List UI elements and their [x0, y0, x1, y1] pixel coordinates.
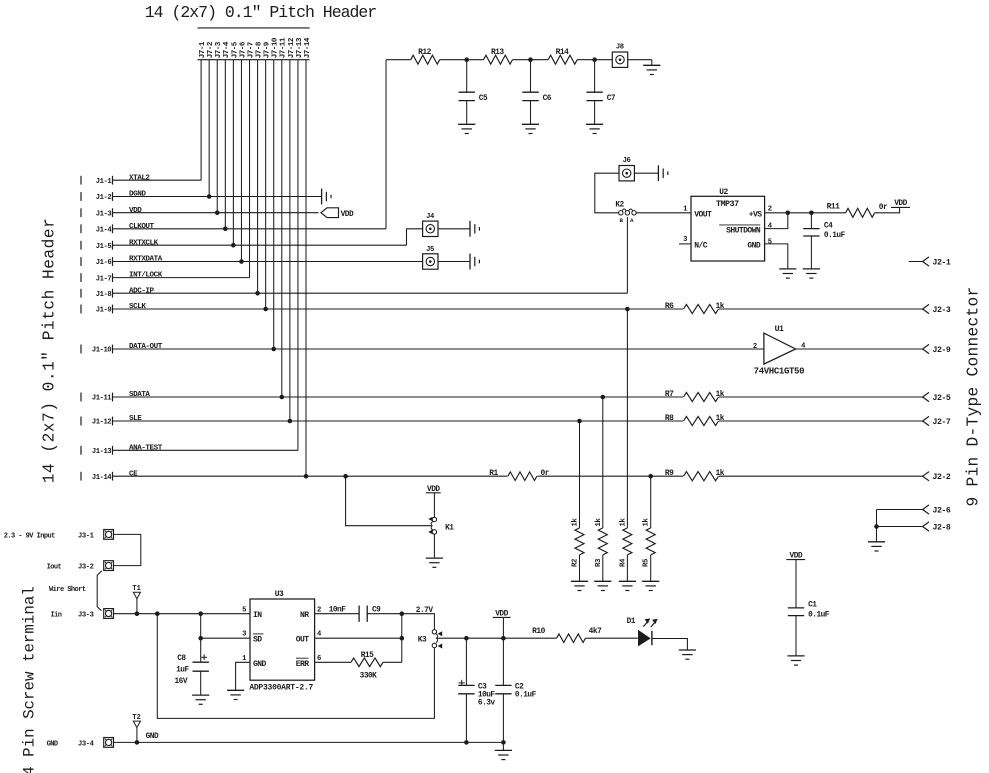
ground R4 — [619, 581, 636, 590]
header title text — [145, 3, 377, 22]
svg-text:J7-1: J7-1 — [199, 41, 207, 58]
svg-text:J7-3: J7-3 — [215, 41, 223, 58]
connector J1 pin J1-14 — [81, 472, 113, 482]
wire R4 to ground — [626, 555, 628, 581]
bottom left title — [21, 586, 39, 773]
power VDD at R11 — [891, 200, 910, 208]
svg-text:R7: R7 — [665, 390, 674, 399]
jumper K1 — [428, 517, 454, 535]
wire R10 to D1 — [586, 637, 638, 639]
wire K1 to ground — [433, 534, 435, 558]
wire K2 to U2 VOUT — [636, 212, 691, 214]
svg-text:J1-5: J1-5 — [96, 243, 112, 251]
wire DGND net — [113, 196, 322, 198]
svg-text:+VS: +VS — [749, 210, 763, 219]
svg-text:J8: J8 — [616, 44, 624, 52]
wire R3 column — [602, 397, 604, 528]
svg-text:J3-3: J3-3 — [78, 611, 94, 619]
wire J7-14 column — [305, 60, 307, 477]
right side title — [965, 287, 983, 507]
resistor R15 — [351, 652, 383, 680]
junction J7-5 to RXTXCLK — [231, 243, 236, 248]
wire J8 to ground — [628, 60, 652, 66]
svg-text:0.1uF: 0.1uF — [808, 611, 830, 619]
connector J1 pin J1-7 — [81, 273, 113, 283]
wire C9 to K3 — [367, 614, 434, 630]
svg-text:J7-12: J7-12 — [288, 37, 296, 58]
svg-text:1: 1 — [683, 206, 688, 214]
svg-text:C6: C6 — [543, 95, 552, 103]
svg-text:SD: SD — [253, 635, 262, 644]
svg-text:J7-14: J7-14 — [304, 37, 312, 58]
svg-text:R4: R4 — [619, 558, 627, 567]
svg-text:J2-7: J2-7 — [933, 418, 951, 427]
label J3-3 — [78, 611, 94, 619]
svg-text:J7-11: J7-11 — [280, 37, 288, 58]
wire J2-8 to ground — [876, 527, 878, 542]
junction C8 mid node — [198, 636, 203, 641]
ground C5 — [458, 124, 475, 133]
wire INT/LOCK net — [113, 277, 250, 279]
svg-text:J7-8: J7-8 — [255, 41, 263, 58]
wire CLKOUT riser — [385, 60, 387, 229]
wire OUT riser — [401, 614, 403, 663]
svg-text:J2-1: J2-1 — [933, 258, 951, 267]
power VDD at K1 — [426, 486, 441, 494]
svg-text:J1-1: J1-1 — [96, 178, 113, 186]
ground C1 — [787, 656, 804, 665]
ground U3 — [227, 690, 244, 699]
svg-text:R12: R12 — [418, 48, 431, 57]
junction C5 node — [464, 57, 469, 62]
wire VDD to R10 row — [502, 617, 504, 638]
label GND net — [146, 733, 159, 741]
wire K2 to ADC-IP — [626, 217, 628, 293]
svg-text:1k: 1k — [716, 302, 725, 311]
connector J1 pin J1-10 — [81, 345, 113, 355]
svg-text:R9: R9 — [665, 469, 674, 478]
connector J1 pin J1-13 — [81, 446, 113, 456]
svg-text:3: 3 — [683, 236, 687, 244]
svg-text:1k: 1k — [716, 414, 725, 423]
svg-text:1k: 1k — [619, 518, 627, 527]
svg-text:R3: R3 — [595, 558, 603, 567]
svg-text:RXTXCLK: RXTXCLK — [129, 239, 159, 247]
ground C8 — [192, 695, 209, 704]
svg-text:R2: R2 — [572, 559, 580, 567]
label ADC-IP — [129, 287, 155, 295]
label DGND — [129, 191, 146, 199]
testpoint T2 — [132, 714, 140, 742]
svg-text:VDD: VDD — [129, 207, 142, 215]
wire K2 to J6 — [595, 173, 619, 213]
capacitor C1 — [788, 560, 830, 656]
wire SLE net — [113, 420, 923, 422]
svg-text:A: A — [630, 217, 634, 224]
wire J5 to ground — [438, 261, 470, 263]
ground J4 — [470, 221, 479, 237]
svg-text:N/C: N/C — [694, 241, 708, 250]
svg-text:J3-1: J3-1 — [78, 532, 95, 540]
wire J7-12 column — [289, 60, 291, 421]
connector J2-9 — [923, 344, 951, 355]
wire R15 to OUT riser — [383, 661, 402, 663]
J7 pin labels — [199, 37, 312, 58]
wire J7-5 column — [232, 60, 234, 246]
junction J7-6 to RXTXDATA — [239, 259, 244, 264]
svg-text:B: B — [620, 217, 624, 224]
wire gnd stub — [502, 742, 504, 750]
svg-text:R1: R1 — [489, 469, 498, 478]
resistor R5 — [643, 518, 656, 567]
label 2.3-9V Input — [4, 532, 55, 540]
wire J4 to ground — [438, 228, 470, 230]
svg-text:J2-5: J2-5 — [933, 394, 951, 403]
connector J1 pin J1-5 — [81, 241, 113, 251]
svg-text:SCLK: SCLK — [129, 303, 146, 311]
connector J1 pin J1-2 — [81, 192, 113, 202]
junction C6 node — [528, 57, 533, 62]
wire SD net — [201, 637, 250, 639]
wire RXTXDATA net — [113, 261, 423, 263]
wire R2 to ground — [579, 555, 581, 581]
junction NR node — [400, 611, 405, 616]
connector J5 — [423, 246, 438, 269]
label DATA-OUT — [129, 343, 163, 351]
jumper K2 — [615, 201, 636, 224]
svg-text:Wire Short: Wire Short — [49, 586, 86, 594]
svg-text:C8: C8 — [177, 655, 186, 663]
wire R5 to ground — [650, 555, 652, 581]
wire U2 gnd pin — [765, 244, 788, 269]
ground C6 — [522, 124, 539, 133]
wire J7-8 column — [257, 60, 259, 294]
wire RXTXCLK to J4 — [407, 229, 423, 245]
ground J8 — [643, 65, 660, 74]
svg-text:J7-7: J7-7 — [247, 41, 255, 58]
junction J2-8 node — [874, 524, 879, 529]
svg-text:J1-10: J1-10 — [92, 347, 111, 355]
label 2.7V — [416, 607, 434, 615]
svg-text:J3-2: J3-2 — [78, 564, 94, 572]
label J3-2 — [78, 564, 94, 572]
label CE — [129, 470, 138, 478]
connector J1 pin J1-1 — [81, 176, 113, 186]
capacitor C2 — [495, 638, 536, 742]
svg-text:J3-4: J3-4 — [78, 740, 95, 748]
svg-text:R13: R13 — [491, 48, 504, 57]
svg-text:XTAL2: XTAL2 — [129, 174, 150, 182]
svg-text:2.3 - 9V Input: 2.3 - 9V Input — [4, 532, 55, 540]
capacitor C3 — [458, 638, 495, 742]
connector J1 pin J1-8 — [81, 289, 113, 299]
svg-text:1k: 1k — [716, 469, 725, 478]
wire U1 output — [796, 348, 923, 350]
wire J3-1 to J3-2 — [114, 534, 141, 565]
svg-text:ADC-IP: ADC-IP — [129, 287, 155, 295]
power VDD at C1 — [786, 553, 805, 561]
svg-text:J7-13: J7-13 — [296, 37, 304, 58]
ground R5 — [642, 581, 659, 590]
left side title — [41, 218, 59, 484]
op-amp U1 74VHC1GT50 — [753, 325, 806, 377]
label SDATA — [129, 391, 150, 399]
label RXTXDATA — [129, 256, 163, 264]
resistor R2 — [572, 518, 585, 567]
connector J2-8 — [877, 522, 951, 533]
ground C7 — [586, 124, 603, 133]
svg-text:U1: U1 — [775, 325, 784, 334]
junction R3 node — [601, 395, 606, 400]
wire J7-7 column — [249, 60, 251, 278]
svg-text:SLE: SLE — [129, 415, 142, 423]
label SCLK — [129, 303, 146, 311]
label CLKOUT — [129, 223, 155, 231]
wire U2 pin3 N/C stub — [679, 243, 691, 245]
svg-text:R5: R5 — [643, 558, 651, 567]
connector J2-7 — [923, 416, 951, 427]
svg-text:J1-4: J1-4 — [96, 227, 113, 235]
svg-text:K2: K2 — [615, 201, 624, 209]
svg-text:J7-6: J7-6 — [239, 41, 247, 58]
junction CE to K1 — [343, 474, 348, 479]
wire top chain seg1 — [386, 59, 411, 61]
label ANA-TEST — [129, 444, 163, 452]
label Iin — [51, 611, 62, 619]
svg-text:5: 5 — [768, 238, 772, 246]
ground J6 — [658, 165, 667, 181]
svg-text:Iout: Iout — [47, 564, 62, 572]
svg-text:ANA-TEST: ANA-TEST — [129, 444, 163, 452]
svg-text:R6: R6 — [665, 302, 674, 311]
ground J2 shield — [868, 542, 885, 551]
ground R3 — [594, 581, 611, 590]
wire J7-9 column — [265, 60, 267, 309]
svg-text:CE: CE — [129, 470, 138, 478]
resistor R6 — [665, 302, 725, 314]
connector J6 — [619, 157, 634, 181]
svg-text:RXTXDATA: RXTXDATA — [129, 256, 163, 264]
svg-text:J2-9: J2-9 — [933, 346, 951, 355]
wire ANA-TEST net — [113, 449, 298, 451]
svg-text:10uF: 10uF — [478, 692, 496, 700]
svg-text:10nF: 10nF — [329, 607, 347, 615]
wire Iin net — [114, 613, 251, 615]
svg-text:C1: C1 — [808, 602, 817, 610]
label VDD — [129, 207, 142, 215]
wire U3 OUT — [315, 637, 402, 639]
svg-text:R14: R14 — [556, 48, 569, 57]
svg-text:VDD: VDD — [341, 211, 354, 219]
wire VDD to K1 — [433, 493, 435, 518]
connector J2-5 — [923, 392, 951, 403]
svg-text:J1-8: J1-8 — [96, 291, 112, 299]
svg-text:J1-9: J1-9 — [96, 307, 112, 315]
ground C4 — [803, 269, 820, 278]
wire SDATA net — [113, 396, 923, 398]
svg-text:Iin: Iin — [51, 611, 62, 619]
svg-text:C5: C5 — [479, 95, 488, 103]
wire XTAL2 net — [113, 179, 201, 181]
junction J7-12 to SLE — [288, 419, 293, 424]
wire CLKOUT net — [113, 228, 386, 230]
svg-text:0.1uF: 0.1uF — [824, 232, 846, 240]
svg-text:VOUT: VOUT — [694, 210, 712, 219]
connector J2-3 — [923, 304, 951, 315]
svg-text:J6: J6 — [623, 157, 631, 165]
svg-text:U2: U2 — [719, 188, 728, 197]
junction C3 node — [464, 636, 469, 641]
resistor R10 — [532, 627, 602, 643]
ground GND net — [495, 750, 512, 759]
svg-text:IN: IN — [253, 611, 262, 620]
svg-text:SDATA: SDATA — [129, 391, 150, 399]
svg-text:4 Pin Screw terminal: 4 Pin Screw terminal — [21, 586, 39, 773]
svg-text:9 Pin D-Type Connector: 9 Pin D-Type Connector — [965, 287, 983, 507]
wire top chain seg4 — [577, 59, 612, 61]
svg-text:C7: C7 — [607, 95, 616, 103]
ground DGND — [322, 189, 331, 205]
svg-text:DGND: DGND — [129, 191, 146, 199]
wire R4 column — [626, 309, 628, 528]
wire K3 bottom bypass — [157, 614, 434, 719]
wire J3-2 to J3-3 short — [97, 571, 102, 611]
svg-text:DATA-OUT: DATA-OUT — [129, 343, 163, 351]
wire R2 column — [579, 421, 581, 528]
wire J7-11 column — [281, 60, 283, 397]
junction J7-9 to SCLK — [263, 307, 268, 312]
junction OUT node — [400, 636, 405, 641]
diode D1 LED — [627, 618, 658, 646]
terminal J3-4 — [104, 738, 114, 748]
power VDD tag — [321, 208, 354, 219]
svg-text:1k: 1k — [595, 518, 603, 527]
junction C4 node — [809, 211, 814, 216]
svg-text:U3: U3 — [275, 590, 284, 599]
label Iout — [47, 564, 62, 572]
junction shutdown node — [786, 211, 791, 216]
svg-text:1uF: 1uF — [176, 667, 189, 675]
resistor R3 — [595, 518, 608, 567]
svg-text:INT/LOCK: INT/LOCK — [129, 272, 163, 280]
junction Iin bypass node — [155, 611, 160, 616]
ground R2 — [571, 581, 588, 590]
junction T1 node — [135, 611, 140, 616]
svg-text:J4: J4 — [426, 213, 435, 221]
resistor R13 — [484, 48, 513, 64]
svg-text:K3: K3 — [418, 637, 427, 645]
svg-text:14 (2x7) 0.1" Pitch Header: 14 (2x7) 0.1" Pitch Header — [145, 3, 377, 22]
svg-text:5: 5 — [242, 607, 246, 615]
wire U3 gnd pin — [236, 662, 250, 690]
wire GND net — [114, 741, 504, 743]
svg-text:J1-3: J1-3 — [96, 210, 112, 218]
capacitor C5 — [459, 60, 488, 125]
wire R5 column — [650, 476, 652, 528]
svg-text:NR: NR — [300, 611, 309, 620]
svg-text:R8: R8 — [665, 414, 674, 423]
resistor R14 — [548, 48, 577, 64]
op-amp U3 ADP3300ART-2.7 — [242, 590, 322, 693]
wire top chain seg3 — [513, 59, 549, 61]
resistor R8 — [665, 414, 725, 426]
svg-text:GND: GND — [253, 660, 267, 669]
testpoint T1 — [132, 585, 140, 614]
svg-text:0r: 0r — [541, 469, 550, 478]
svg-text:SHUTDOWN: SHUTDOWN — [726, 226, 761, 235]
wire U3 ERR — [315, 661, 351, 663]
junction J7-11 to SDATA — [280, 395, 285, 400]
wire J7-13 column — [297, 60, 299, 451]
svg-text:R15: R15 — [361, 652, 374, 660]
terminal J3-1 — [104, 530, 114, 540]
wire SCLK net — [113, 308, 923, 310]
connector J8 — [612, 44, 627, 68]
svg-text:330K: 330K — [360, 672, 378, 680]
wire D1 to ground — [652, 639, 688, 651]
svg-text:4k7: 4k7 — [589, 627, 602, 636]
svg-text:0.1uF: 0.1uF — [515, 692, 537, 700]
jumper K3 — [418, 630, 442, 649]
label RXTXCLK — [129, 239, 159, 247]
svg-text:1k: 1k — [716, 390, 725, 399]
label SLE — [129, 415, 142, 423]
svg-text:GND: GND — [146, 733, 159, 741]
resistor R7 — [665, 390, 725, 402]
svg-text:74VHC1GT50: 74VHC1GT50 — [754, 367, 805, 377]
svg-text:K1: K1 — [445, 524, 454, 532]
svg-text:CLKOUT: CLKOUT — [129, 223, 155, 231]
svg-text:J7-4: J7-4 — [223, 41, 231, 58]
svg-text:3: 3 — [242, 631, 246, 639]
ground D1 — [679, 650, 696, 659]
svg-text:D1: D1 — [627, 618, 636, 626]
connector J1 pin J1-6 — [81, 257, 113, 267]
label Wire Short — [49, 586, 86, 594]
resistor R11 — [827, 203, 888, 218]
svg-text:J1-14: J1-14 — [92, 474, 112, 482]
capacitor C7 — [586, 60, 615, 125]
wire J7-4 column — [224, 60, 226, 229]
connector J4 — [423, 213, 438, 237]
svg-text:ADP3300ART-2.7: ADP3300ART-2.7 — [249, 684, 313, 693]
wire R3 to ground — [602, 555, 604, 581]
svg-text:J1-12: J1-12 — [92, 419, 111, 427]
svg-text:J1-7: J1-7 — [96, 275, 112, 283]
label XTAL2 — [129, 174, 150, 182]
wire K3 mid net — [438, 637, 557, 639]
svg-text:TMP37: TMP37 — [716, 199, 739, 209]
svg-text:1k: 1k — [572, 518, 580, 527]
connector J2-6 — [877, 505, 951, 516]
ground U2 — [779, 269, 796, 278]
svg-text:J7-9: J7-9 — [264, 41, 272, 58]
junction J7-2 to DGND — [207, 194, 212, 199]
svg-text:GND: GND — [47, 740, 58, 748]
resistor R9 — [665, 469, 725, 481]
junction R5 node — [648, 474, 653, 479]
junction J7-4 to CLKOUT — [223, 227, 228, 232]
svg-text:J1-6: J1-6 — [96, 259, 112, 267]
junction C2 gnd node — [501, 740, 506, 745]
capacitor C9 — [329, 606, 381, 622]
svg-text:J2-8: J2-8 — [933, 523, 951, 532]
ground K1 — [426, 558, 443, 567]
connector J1 pin J1-12 — [81, 417, 113, 427]
resistor R1 — [489, 469, 549, 481]
wire top chain seg2 — [440, 59, 484, 61]
wire J2-6 drop — [876, 510, 878, 527]
